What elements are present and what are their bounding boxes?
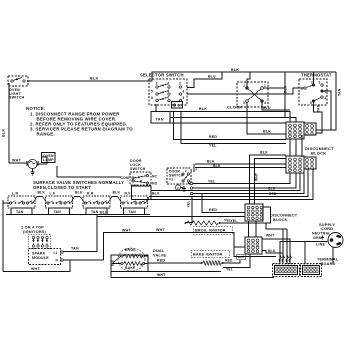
- wire B-C bus y155: [250, 151, 287, 205]
- wire BLK bus y216: [97, 211, 245, 217]
- wire WHT to oven lamp: [9, 159, 27, 164]
- svg-text:BLK: BLK: [199, 107, 207, 111]
- terminal board F: [301, 263, 322, 277]
- oven light lamp symbol: [175, 185, 186, 192]
- svg-text:CORD: CORD: [321, 227, 333, 231]
- wire BLK oven light to top bus: [27, 68, 336, 81]
- svg-text:RED: RED: [157, 259, 165, 263]
- svg-text:YEL: YEL: [209, 144, 217, 148]
- wire TAN thermostat t5 down: [314, 88, 342, 133]
- bake ignitor: [191, 251, 229, 266]
- notice text block: [26, 106, 133, 137]
- wire WHT bus y232: [104, 228, 277, 260]
- bake valve coil: [112, 262, 148, 270]
- disconnect block C label: [270, 214, 298, 223]
- svg-text:BROIL: BROIL: [125, 248, 137, 252]
- wire BLK block D label: [0, 0, 1, 1]
- selector TAN box: [151, 112, 170, 124]
- svg-text:RED: RED: [269, 192, 277, 196]
- wire TAN boxes bottom bus: [6, 214, 150, 216]
- door switch #1: [167, 168, 193, 184]
- svg-text:R.F: R.F: [125, 192, 131, 196]
- wire WHT block D right: [262, 234, 290, 265]
- oven lamp label: [42, 153, 56, 163]
- clock label: [227, 105, 242, 110]
- surface valve switches row: [8, 191, 148, 215]
- svg-text:TAN: TAN: [16, 210, 24, 214]
- selector terminal 10: [172, 102, 183, 109]
- wire YEL broil right: [220, 219, 287, 230]
- wire COM left: [57, 166, 121, 177]
- svg-text:BLU: BLU: [208, 75, 216, 79]
- wire supply cord down: [332, 247, 334, 264]
- wire BLK bus y111: [151, 107, 290, 122]
- svg-text:YEL: YEL: [187, 200, 191, 207]
- svg-text:DUAL: DUAL: [153, 249, 165, 253]
- svg-text:WHT: WHT: [31, 267, 40, 271]
- terminal board label: [317, 258, 339, 266]
- svg-text:L.F: L.F: [50, 192, 56, 196]
- svg-text:BLOCK: BLOCK: [311, 151, 326, 156]
- door lock switch S2: [121, 172, 158, 186]
- svg-text:BLK: BLK: [90, 77, 99, 81]
- svg-text:WHT: WHT: [156, 228, 165, 232]
- svg-text:2: 2: [185, 169, 187, 173]
- wires block C to D: [249, 221, 257, 237]
- svg-text:L1: L1: [54, 251, 58, 255]
- svg-text:BLU: BLU: [263, 106, 271, 110]
- wire block C right loop: [231, 207, 271, 223]
- svg-text:TAN: TAN: [71, 247, 79, 251]
- svg-text:YEL: YEL: [231, 219, 238, 223]
- svg-text:4: 4: [264, 101, 266, 105]
- svg-text:BLK: BLK: [284, 85, 288, 93]
- svg-text:WHT: WHT: [12, 159, 21, 163]
- svg-text:L.R: L.R: [12, 192, 18, 196]
- svg-text:1: 1: [301, 87, 303, 91]
- ground oven lamp: [30, 169, 34, 175]
- supply cord label: [312, 223, 335, 247]
- svg-text:BAKE IGNITOR: BAKE IGNITOR: [193, 253, 223, 257]
- broil valve coil: [121, 248, 148, 258]
- wire RED to block C: [202, 194, 245, 213]
- svg-text:SELECTOR SWITCH: SELECTOR SWITCH: [140, 73, 184, 78]
- svg-text:BLK: BLK: [268, 187, 276, 191]
- svg-text:5: 5: [151, 90, 153, 94]
- svg-text:BLK: BLK: [75, 191, 83, 195]
- wire YEL door switch right: [193, 173, 290, 184]
- svg-text:OPEN,CLOSED TO START: OPEN,CLOSED TO START: [33, 185, 91, 190]
- svg-text:TAN: TAN: [317, 104, 321, 112]
- svg-text:RED: RED: [209, 135, 217, 139]
- svg-text:9: 9: [183, 96, 185, 100]
- svg-text:RED: RED: [225, 259, 233, 263]
- disconnect block D: [245, 237, 262, 254]
- svg-text:BLK: BLK: [207, 160, 215, 164]
- svg-text:WHT: WHT: [157, 273, 166, 277]
- svg-text:THERMOSTAT: THERMOSTAT: [301, 73, 332, 78]
- wire YEL bus y143: [181, 112, 286, 148]
- door lock switch label: [130, 159, 146, 171]
- svg-text:1: 1: [156, 82, 158, 86]
- svg-text:10: 10: [178, 104, 182, 108]
- wire x283 drop: [282, 229, 284, 253]
- disconnect block label B: [305, 146, 334, 156]
- wire thermostat t2 from top bus: [313, 72, 315, 84]
- svg-text:TAN: TAN: [156, 118, 164, 122]
- svg-text:VALVE: VALVE: [153, 254, 166, 258]
- wire YEL bake right: [223, 254, 250, 272]
- wire clock t3 down: [246, 102, 248, 117]
- wire RED y193 right: [193, 169, 304, 196]
- wire bus y117: [170, 118, 296, 123]
- svg-text:7: 7: [168, 96, 170, 100]
- svg-text:BLK: BLK: [263, 130, 271, 134]
- top ignitors label: [21, 226, 47, 235]
- wire y188 right: [193, 173, 296, 188]
- wire BLK clock t3 to block A: [247, 102, 286, 134]
- wire door switch top to bus: [194, 164, 198, 172]
- boxed BLK label: [237, 254, 246, 260]
- svg-text:NOTICE:: NOTICE:: [26, 106, 46, 111]
- wire surface switch left end: [3, 200, 10, 272]
- wire top bus right drop: [316, 72, 336, 130]
- svg-text:3: 3: [319, 81, 321, 85]
- wire B-C bus y158: [255, 159, 287, 205]
- wire TAN spark L1: [63, 215, 97, 252]
- svg-text:2 OR 4 TOP: 2 OR 4 TOP: [21, 226, 44, 230]
- ground GRN supply: [321, 236, 324, 240]
- svg-text:BLK: BLK: [213, 164, 221, 168]
- svg-text:LAMP: LAMP: [43, 158, 54, 162]
- svg-text:SWITCH: SWITCH: [9, 96, 25, 100]
- svg-text:DISCONNECT: DISCONNECT: [270, 214, 298, 218]
- svg-text:YEL: YEL: [208, 180, 215, 184]
- svg-text:2: 2: [243, 84, 245, 88]
- wire bus y167: [195, 164, 286, 168]
- thermostat dashed box: [299, 79, 327, 105]
- broil ignitor: [185, 221, 233, 234]
- door switch connector pins: [189, 182, 193, 195]
- wire RED bus y139: [174, 112, 287, 140]
- svg-text:2: 2: [196, 168, 198, 172]
- wire thermostat t6 right: [323, 91, 331, 130]
- disconnect block A: [286, 122, 316, 139]
- top ignitors: [28, 235, 51, 249]
- svg-text:BOARD: BOARD: [321, 262, 336, 266]
- svg-text:BLK: BLK: [238, 255, 245, 259]
- wire WHT bottom bus: [111, 273, 274, 278]
- svg-text:(IGNITORS): (IGNITORS): [23, 230, 47, 234]
- svg-text:4: 4: [325, 96, 327, 100]
- oven light switch SW1: [8, 76, 28, 100]
- svg-text:TAN: TAN: [129, 210, 137, 214]
- svg-text:R.R: R.R: [87, 192, 94, 196]
- disconnect block C: [245, 204, 263, 221]
- wire BLK block D right low: [262, 249, 283, 264]
- svg-text:6: 6: [325, 90, 327, 94]
- supply cord plug: [328, 233, 343, 248]
- wire BLK surface row right: [146, 169, 309, 203]
- svg-text:1: 1: [264, 84, 266, 88]
- svg-text:GRN: GRN: [313, 236, 322, 240]
- selector switch S1: [149, 79, 187, 105]
- svg-text:N: N: [56, 259, 59, 263]
- selector switch label: [140, 73, 184, 78]
- svg-text:BLK: BLK: [268, 249, 276, 253]
- clock dashed box: [237, 82, 268, 107]
- terminal board E: [273, 263, 300, 277]
- wire bus y164 BLK: [195, 160, 286, 165]
- svg-text:3: 3: [179, 82, 181, 86]
- wire YEL vert to broil ignitor: [186, 197, 192, 223]
- dual valve label: [153, 249, 166, 258]
- svg-text:3: 3: [191, 169, 193, 173]
- svg-text:YEL: YEL: [226, 268, 233, 272]
- svg-text:8: 8: [151, 96, 153, 100]
- svg-text:NO: NO: [152, 182, 158, 186]
- wire RED bake right: [223, 259, 240, 264]
- svg-text:WHT: WHT: [266, 234, 275, 238]
- svg-text:RANGE.: RANGE.: [37, 132, 55, 137]
- wire clock t2 from top bus: [247, 72, 250, 87]
- wire bus y123: [170, 122, 286, 124]
- svg-text:SWITCH: SWITCH: [130, 167, 146, 171]
- wires door lock down: [132, 169, 314, 200]
- disconnect block B: [286, 156, 316, 173]
- svg-text:NC: NC: [152, 175, 158, 179]
- svg-text:4: 4: [183, 90, 185, 94]
- wire BLU selector to bus: [187, 72, 222, 88]
- wire RED dual valve to bake: [148, 259, 201, 264]
- wire selector row2 right: [187, 88, 304, 94]
- surface valve switches label: [33, 180, 124, 190]
- svg-text:BLK: BLK: [38, 191, 46, 195]
- svg-text:6: 6: [168, 89, 170, 93]
- svg-text:TAN: TAN: [338, 88, 342, 96]
- dual valve box: [111, 255, 149, 278]
- svg-text:BLK: BLK: [111, 260, 115, 266]
- svg-text:2: 2: [311, 81, 313, 85]
- svg-text:MODULE: MODULE: [32, 256, 49, 260]
- wire BLU clock t4 down: [262, 102, 290, 110]
- svg-text:3: 3: [243, 101, 245, 105]
- svg-text:BLK: BLK: [113, 191, 121, 195]
- svg-text:2: 2: [168, 82, 170, 86]
- wire x287 drop: [286, 229, 288, 264]
- svg-text:BROIL IGNITOR: BROIL IGNITOR: [195, 229, 226, 233]
- svg-text:NEUTRAL: NEUTRAL: [312, 232, 331, 236]
- svg-text:TAN: TAN: [54, 210, 62, 214]
- thermostat terminals: [301, 81, 327, 106]
- dual valve ellipse: [118, 248, 145, 271]
- svg-text:BLK: BLK: [100, 211, 108, 215]
- wire neutral left: [280, 242, 328, 265]
- wires block A bottom to block B: [290, 135, 302, 157]
- svg-text:WHT: WHT: [122, 229, 131, 233]
- wire BLK clock t1 down: [263, 72, 287, 118]
- svg-text:BAKE: BAKE: [125, 266, 136, 270]
- svg-text:BLK: BLK: [152, 192, 160, 196]
- svg-text:BLOCK: BLOCK: [273, 218, 288, 222]
- wire squiggles to board E: [279, 255, 292, 264]
- svg-text:#1: #1: [169, 178, 173, 182]
- thermostat label: [301, 73, 332, 78]
- clock terminals: [243, 84, 266, 105]
- wire BLK left vertical: [2, 83, 10, 163]
- oven lamp DS1: [27, 157, 47, 169]
- svg-text:TAN: TAN: [91, 210, 99, 214]
- svg-text:5: 5: [310, 101, 312, 105]
- svg-text:BLK: BLK: [231, 68, 239, 72]
- wire y271 right: [148, 271, 221, 273]
- wire selector bottom stub: [155, 104, 157, 112]
- svg-text:RED: RED: [209, 208, 217, 212]
- svg-text:CLOCK: CLOCK: [227, 105, 242, 110]
- svg-text:BLK: BLK: [260, 151, 268, 155]
- svg-text:WHT: WHT: [255, 173, 259, 181]
- svg-text:BLK: BLK: [2, 128, 6, 137]
- spark module: [29, 249, 64, 265]
- wire WHT spark N: [3, 260, 104, 272]
- svg-text:LINE: LINE: [316, 243, 325, 247]
